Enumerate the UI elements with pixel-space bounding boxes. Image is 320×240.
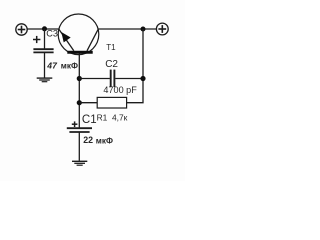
transistor T1 emitter arrow [61,32,70,42]
svg-text:мкФ: мкФ [61,62,78,71]
terminal + (right output) [156,23,168,35]
svg-text:мкФ: мкФ [96,136,113,145]
transistor T1 collector line [87,29,98,51]
polarity + of C3 [33,36,40,43]
transistor T1 emitter line [59,29,74,51]
ground (under C3) [37,78,53,82]
wire: C2 left lead [79,78,110,80]
wire: left terminal to transistor emitter [27,28,59,30]
wire: C1 to ground [78,132,80,161]
wire: R1 left lead [79,102,97,104]
svg-text:R1 4,7к: R1 4,7к [97,112,128,122]
node: output rail / right branch junction [141,27,146,32]
wire: C2 right lead [115,78,143,80]
wire: junction down to C3 [44,29,46,49]
ground (under C1) [72,161,87,165]
wire: base line down (base to C1) [78,54,80,128]
svg-text:22: 22 [83,135,93,145]
svg-text:47: 47 [46,60,58,70]
svg-text:T1: T1 [106,43,116,52]
polarity + of C1 [72,121,78,127]
node: base / R1 junction [77,100,82,105]
svg-text:C1: C1 [82,114,97,126]
transistor T1 base bar [67,51,92,54]
node: C2 / right branch junction [140,76,145,81]
capacitor C2 plates [111,70,115,87]
capacitor C3 plates [33,49,53,52]
resistor R1 body [97,97,126,108]
terminal + (left input) [16,24,27,35]
node: C3 tap junction [42,26,47,31]
svg-text:C3: C3 [46,28,58,38]
transistor T1 (body circle) [58,14,99,55]
svg-text:4700 pF: 4700 pF [103,85,137,95]
wire: C3 to ground [44,52,46,77]
node: base / C2 junction [77,76,82,81]
capacitor C1 plates [67,128,92,132]
wire: right vertical branch [127,29,143,103]
svg-text:C2: C2 [105,59,118,70]
wire: top rail right (collector to output) [98,28,156,30]
